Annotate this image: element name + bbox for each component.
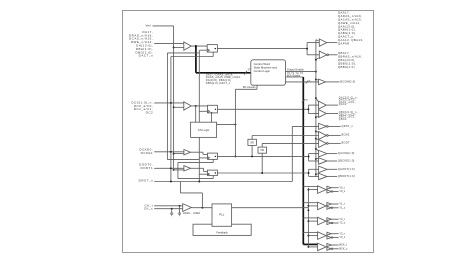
node FF4 Q	[215, 172, 216, 173]
wire stub QBCKE driver	[309, 160, 319, 162]
bus slash command	[244, 71, 246, 75]
node FF2 bottom	[211, 112, 213, 114]
wire OR1 output up	[251, 136, 253, 140]
wire Y1_t output	[331, 203, 338, 205]
svg-text:BCK_c: BCK_c	[339, 246, 348, 250]
node FF1 Q	[215, 48, 216, 49]
wire enable stub Y0	[303, 185, 317, 187]
FF3 clock wedge	[208, 157, 210, 159]
OE tick BODT driver	[316, 138, 319, 141]
wire QBCS outputs	[326, 113, 338, 115]
OE tick QBCKE driver	[316, 157, 319, 160]
node Vref tap U2	[173, 106, 175, 108]
node QACS split	[307, 108, 309, 110]
RC access vertical	[234, 89, 236, 156]
wire QACS outputs	[326, 104, 338, 106]
wire DRST input	[154, 181, 292, 183]
node Vref tap U4	[173, 169, 175, 171]
left rail B	[170, 57, 172, 182]
FF1 clock wedge	[207, 49, 209, 52]
wire QAODT split vertical	[308, 169, 310, 176]
svg-text:Y2_t: Y2_t	[339, 217, 345, 221]
clock enable thick vertical	[302, 77, 304, 244]
wire enable stub Y1	[303, 202, 317, 204]
wire stub QA driver	[307, 42, 319, 44]
svg-text:DC2: DC2	[146, 110, 154, 114]
wire QACS split vertical	[307, 105, 309, 113]
node DRST rail B junction	[170, 181, 172, 183]
wire BCKE output	[328, 134, 341, 136]
output stage Y3_t	[327, 232, 332, 235]
wire DCS input	[154, 102, 184, 104]
wire stub QACS driver	[308, 104, 318, 106]
wire Y2 split	[326, 219, 328, 223]
wire clock stub FF2	[199, 110, 207, 112]
block CS Logic	[191, 122, 217, 137]
output driver QACKE	[319, 150, 327, 157]
wire clock stub Y0	[308, 189, 317, 191]
wire U3 jog	[202, 152, 204, 154]
wire clock rail jog left vertical	[179, 182, 181, 193]
wire QA outputs	[327, 42, 338, 44]
node QACKE split	[308, 155, 310, 157]
wire U1 output	[191, 45, 207, 47]
inverter bubble QB	[327, 54, 329, 56]
node OR2 tap on DODT line	[261, 172, 263, 174]
svg-text:DBG[1:0], DACT_n: DBG[1:0], DACT_n	[206, 81, 231, 85]
left rail A	[166, 53, 168, 160]
left rail C	[177, 163, 179, 179]
wire QRST driver input	[292, 125, 318, 127]
svg-text:Y3_c: Y3_c	[339, 235, 346, 239]
wire RC access horizontal	[235, 88, 257, 90]
command bus thick horizontal to control logic	[196, 72, 251, 74]
wire DCKE input	[154, 151, 184, 153]
border frame	[123, 11, 374, 253]
wire output enable	[286, 71, 316, 73]
node RC vertical bottom junction	[234, 155, 236, 157]
OE tick QACS driver	[316, 98, 319, 102]
wire OR1 input down	[251, 145, 253, 156]
wire DODT input	[154, 167, 184, 169]
svg-text:QACKE[1:0]: QACKE[1:0]	[338, 151, 355, 155]
output stage BCK_c inverting	[327, 247, 332, 250]
FF4 clock wedge	[208, 173, 210, 175]
output stage Y1_c inverting	[327, 206, 332, 209]
svg-text:BCOM[2:0]: BCOM[2:0]	[340, 80, 355, 84]
wire routing H2	[171, 56, 213, 58]
svg-text:Y3_t: Y3_t	[339, 231, 345, 235]
command bus thick vertical	[195, 46, 197, 73]
svg-text:DODT1: DODT1	[141, 166, 154, 170]
wire BCOM from control logic	[286, 81, 319, 83]
clock driver Y0	[318, 186, 327, 194]
bus slash BCOM	[306, 81, 309, 84]
output stage Y0_c inverting	[327, 190, 332, 193]
output driver BCKE inverting	[319, 132, 327, 140]
svg-text:OR: OR	[260, 149, 264, 152]
wire clock stub BCK	[308, 246, 317, 248]
clock driver Y2	[318, 217, 327, 225]
wire rail A lower horizontal	[167, 159, 199, 161]
output driver QBCS	[319, 110, 327, 118]
output driver BODT inverting	[319, 140, 327, 148]
termination resistor CK_t	[178, 206, 181, 216]
output driver QACS	[319, 101, 327, 109]
svg-text:Control Logic: Control Logic	[254, 69, 271, 73]
wire clock stub FF4	[199, 173, 207, 175]
wire stub QBODT driver	[309, 175, 319, 177]
wire FF3 bottom hook	[212, 159, 214, 162]
wire Y2_c output	[333, 222, 339, 224]
wire Y0 split	[326, 188, 328, 192]
wire routing H1	[167, 52, 199, 54]
wire clock stub Y2	[308, 220, 317, 222]
wire clock stub Y1	[308, 205, 317, 207]
node clock tap BCK	[307, 246, 309, 248]
svg-text:QAPAR: QAPAR	[338, 41, 350, 45]
svg-text:Output Enable: Output Enable	[287, 68, 304, 72]
output stage Y3_c inverting	[327, 236, 332, 239]
output stage Y1_t	[327, 203, 332, 206]
node OE tap	[315, 138, 317, 140]
wire Vref stub U4	[174, 169, 184, 171]
svg-text:100kΩ ↔ 100kΩ: 100kΩ ↔ 100kΩ	[183, 213, 200, 215]
output driver QRST inverting	[319, 123, 327, 129]
node OE tap	[315, 97, 317, 99]
svg-text:QAC2: QAC2	[339, 103, 347, 106]
OE tick top driver	[316, 39, 319, 42]
svg-text:Vref: Vref	[145, 24, 150, 28]
node CK_t termination tap	[179, 205, 181, 207]
wire Y1_c output	[333, 207, 339, 209]
svg-text:OR: OR	[250, 141, 254, 144]
block Control Word State Machine and Control Logic	[251, 60, 286, 85]
wire U3 output	[191, 151, 204, 153]
wire FF2 Q to QACS drivers	[217, 108, 308, 110]
flip-flop FF4	[208, 170, 218, 176]
output driver QAODT	[319, 166, 327, 173]
wire Vref stub U1	[174, 46, 184, 48]
node Vref tap U3	[173, 153, 175, 155]
OE tick QBODT driver	[316, 173, 319, 176]
node clock tap Y3	[307, 235, 309, 237]
wire Y3_c output	[333, 237, 339, 239]
wire QAODT output	[327, 168, 337, 170]
svg-text:BCK_t: BCK_t	[339, 243, 347, 247]
output stage BCK_t	[327, 244, 332, 247]
wire stub QBCS driver	[308, 113, 318, 115]
wire CK_c	[154, 208, 183, 210]
block Feedback	[193, 224, 251, 235]
svg-text:QRST_n: QRST_n	[342, 124, 354, 128]
wire clock enable	[286, 76, 304, 78]
gate OR1	[248, 139, 257, 145]
input receiver U1	[184, 42, 191, 50]
node clock feedback junction	[201, 207, 203, 209]
clock enable thick bottom horizontal	[303, 243, 317, 245]
svg-text:Y0_t: Y0_t	[339, 185, 345, 189]
wire BCKE to driver	[252, 135, 319, 137]
svg-text:Y1_t: Y1_t	[339, 202, 345, 206]
svg-text:PLL: PLL	[219, 213, 225, 217]
node QAODT split	[308, 172, 310, 174]
clock receiver U5	[183, 204, 192, 212]
wire address input	[154, 43, 184, 45]
node FF2 Q	[215, 109, 216, 110]
input receiver U4	[184, 166, 191, 171]
node OE tap	[315, 158, 317, 160]
node OE tap	[315, 130, 317, 132]
node FF3 Q	[215, 156, 216, 157]
output driver QA group	[319, 39, 327, 46]
wire Y2_t output	[331, 218, 338, 220]
wire U3 jog2	[203, 153, 208, 155]
output stage Y2_t	[327, 218, 332, 221]
svg-text:BODT: BODT	[342, 141, 350, 145]
wire FF4 Q to QAODT drivers	[217, 172, 308, 174]
wire QACKE split vertical	[308, 154, 310, 161]
wire clock stub Y3	[308, 235, 317, 237]
node OE tap	[315, 79, 317, 81]
svg-text:Y1_c: Y1_c	[339, 205, 346, 209]
node CK_c termination tap	[171, 208, 173, 210]
flip-flop FF2	[208, 105, 218, 113]
wire OR2 output up	[261, 143, 263, 147]
output driver BCOM	[319, 79, 326, 85]
clock rail	[198, 50, 200, 181]
node OR1 tap on DCKE line	[251, 155, 253, 157]
node DRST clock rail junction	[198, 181, 200, 183]
wire enable stub Y3	[303, 231, 317, 233]
wire Y3_t output	[331, 233, 338, 235]
OE tick QRST driver	[316, 149, 319, 151]
wire stub QACKE driver	[309, 153, 319, 155]
flip-flop FF3	[208, 153, 218, 159]
wire QBCKE output	[327, 160, 337, 162]
node clock tap Y2	[307, 220, 309, 222]
wire Vref stub U2	[174, 106, 184, 108]
svg-text:CS Logic: CS Logic	[198, 128, 210, 132]
wire BCK split	[326, 245, 328, 249]
node output enable tap	[315, 71, 317, 73]
wire BODT output	[328, 142, 341, 144]
node PLL clock junction upper	[307, 205, 309, 207]
bus slash clock enable	[302, 99, 306, 102]
wire BODT to driver	[262, 142, 318, 144]
wire clock stub FF1	[199, 49, 207, 51]
wire FF1 bottom hook	[212, 52, 214, 56]
wire FF2 bottom to CS logic	[211, 113, 213, 122]
node OE tap	[315, 116, 317, 118]
wire FF1 Q to output drivers	[217, 48, 307, 50]
wire U2 to CS logic	[195, 106, 197, 122]
node OE tap	[315, 148, 317, 150]
wire QACKE output	[327, 153, 337, 155]
termination resistor CK_c	[170, 209, 173, 216]
wire U5 output to PLL	[191, 207, 212, 209]
svg-text:QAODT[1:0]: QAODT[1:0]	[338, 167, 355, 171]
wire hook horizontal FF4	[178, 178, 213, 180]
wire hook horizontal FF3	[178, 162, 213, 164]
wire Vref to rail	[153, 25, 174, 27]
wire enable stub Y2	[303, 217, 317, 219]
svg-text:Feedback: Feedback	[216, 231, 228, 235]
svg-text:CK_c: CK_c	[144, 207, 153, 211]
node QA QB split	[306, 48, 308, 50]
output driver QBCKE	[319, 158, 327, 165]
svg-text:Y0_c: Y0_c	[339, 189, 346, 193]
wire PLL output	[232, 207, 309, 209]
clock driver Y1	[318, 202, 327, 210]
wire Y0_c output	[333, 191, 339, 193]
svg-text:DRST_n: DRST_n	[139, 178, 154, 182]
wire DRST up to QRST driver	[291, 126, 293, 181]
node Vref tap U1	[173, 46, 175, 48]
svg-text:QBBA[1:0]: QBBA[1:0]	[338, 65, 355, 69]
wire Y3 split	[326, 234, 328, 238]
node RC vertical top junction	[234, 123, 236, 125]
clock driver BCK	[318, 243, 327, 251]
wire QRST output	[328, 125, 341, 127]
node OE tap	[315, 59, 317, 61]
clock driver Y3	[318, 232, 327, 240]
OE tick BCKE driver	[316, 130, 319, 133]
svg-text:QBCKE[1:0]: QBCKE[1:0]	[338, 159, 355, 163]
wire FF3 Q to QACKE drivers	[217, 155, 308, 157]
gate OR2	[258, 147, 267, 153]
Vref rail	[173, 26, 175, 170]
wire QB outputs	[329, 54, 338, 56]
OE tick QBCS driver	[316, 116, 319, 119]
flip-flop FF1	[207, 45, 217, 53]
svg-text:QBC2: QBC2	[339, 118, 347, 121]
svg-text:DCKE1: DCKE1	[141, 151, 154, 155]
node DCKE rail tap	[170, 151, 172, 153]
wire CK_t	[154, 205, 183, 207]
wire BCOM output	[326, 81, 340, 83]
wire clock rail jog horizontal	[180, 192, 202, 194]
wire clock stub FF3	[199, 157, 207, 159]
wire output bus to QA QB drivers	[306, 43, 308, 55]
FF2 clock wedge	[208, 110, 210, 113]
node PLL clock junction lower	[307, 209, 309, 211]
wire U4 jog2	[204, 170, 208, 172]
svg-text:QBODT[1:0]: QBODT[1:0]	[338, 174, 355, 178]
node command bus junction	[195, 45, 197, 47]
wire BCK_c output	[333, 248, 339, 250]
output driver QBODT	[319, 173, 327, 180]
input receiver U3	[184, 150, 191, 155]
wire QBODT output	[327, 175, 337, 177]
wire clock rail jog up	[201, 193, 203, 208]
clock distribution rail	[307, 188, 309, 247]
wire FF4 bottom hook	[212, 176, 214, 179]
output stage Y0_t	[327, 186, 332, 189]
block PLL	[212, 204, 232, 226]
wire U4 jog	[203, 168, 205, 171]
OE tick lower driver	[316, 58, 319, 60]
wire stub QAODT driver	[309, 168, 319, 170]
node OE tap	[315, 173, 317, 175]
wire Vref stub U3	[174, 153, 184, 155]
node DCS rail tap	[170, 102, 172, 104]
node U2 output junction	[195, 105, 197, 107]
output stage Y2_c inverting	[327, 222, 332, 225]
svg-text:Y2_c: Y2_c	[339, 221, 346, 225]
wire Y1 split	[326, 204, 328, 208]
wire CS logic output	[217, 123, 236, 125]
wire RC access into control logic	[256, 85, 258, 89]
output enable distribution rail	[315, 40, 317, 177]
wire U2 output	[191, 105, 207, 107]
node DODT rail tap	[170, 167, 172, 169]
wire Y0_t output	[331, 187, 338, 189]
wire stub QB driver	[307, 54, 319, 56]
svg-text:DACT_n: DACT_n	[139, 54, 154, 58]
wire OR2 input down	[261, 153, 263, 173]
input receiver U2	[184, 102, 191, 110]
wire BCK_t output	[331, 244, 338, 246]
wire U4 output	[191, 167, 204, 169]
OE tick BCOM driver	[316, 79, 319, 82]
output driver QB group inverting	[319, 51, 327, 58]
svg-text:BCKE: BCKE	[342, 133, 350, 137]
node clock tap Y0	[307, 189, 309, 191]
